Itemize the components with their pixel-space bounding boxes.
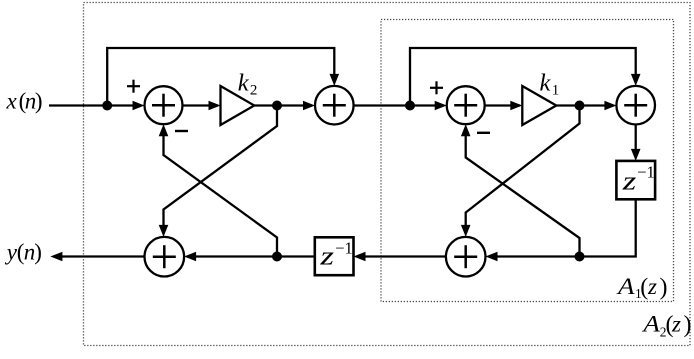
plus sign inside adder S1	[152, 94, 175, 117]
plus sign inside adder S1'	[454, 94, 477, 117]
node A junction dot	[102, 101, 112, 111]
node F junction dot	[575, 252, 585, 262]
plus sign inside adder S2	[323, 94, 346, 117]
wire x(n) input to summer S1	[49, 104, 141, 106]
arrowhead into S3' top	[461, 225, 471, 237]
plus sign inside adder S2'	[624, 94, 647, 117]
svg-text:k: k	[540, 69, 552, 96]
adder S2'	[616, 86, 655, 125]
arrowhead into S1' left	[435, 101, 447, 111]
arrowhead into triangle k2	[209, 101, 221, 111]
svg-text:): )	[34, 240, 42, 265]
label y(n)	[5, 240, 42, 265]
arrowhead into triangle k1	[510, 101, 522, 111]
label A2(z)	[641, 312, 691, 340]
node C junction dot	[272, 252, 282, 262]
arrowhead into S1 left	[133, 101, 145, 111]
arrowhead into S3 top	[159, 225, 169, 237]
adder S2	[315, 86, 354, 125]
label A1(z)	[616, 274, 668, 301]
wire delay z-1 left to node C to S3	[188, 255, 315, 257]
arrowhead into delay z-1 left right side	[354, 252, 366, 262]
arrowhead into S1 bottom (minus input)	[159, 124, 169, 136]
svg-text:z: z	[319, 242, 334, 271]
node E junction dot	[575, 101, 585, 111]
svg-text:z: z	[621, 166, 636, 195]
minus label at S1' feedback input	[477, 132, 490, 134]
minus label at S1 feedback input	[175, 130, 188, 132]
wire S3' to delay z-1 left	[358, 255, 447, 257]
svg-text:): )	[660, 275, 668, 301]
svg-text:z: z	[647, 274, 657, 299]
delay block z-1 left	[315, 237, 354, 275]
delay block z-1 right	[616, 161, 655, 199]
plus label at S1 input	[127, 80, 140, 93]
arrowhead into S2 top	[330, 74, 340, 86]
wire S1' to triangle k1	[485, 104, 520, 106]
node D junction dot	[405, 101, 415, 111]
wire triangle k1 output to node E to S2'	[556, 104, 613, 106]
plus sign inside adder S3	[153, 245, 176, 268]
wire S2 to node D to S1'	[354, 104, 443, 106]
wire S1 to triangle k2	[183, 104, 218, 106]
wire cross down right: node E to S3' top	[466, 106, 580, 230]
arrowhead into S1' bottom (minus input)	[461, 124, 471, 136]
wire top feedback right: node D up, across, down to S2'	[410, 48, 636, 106]
svg-text:): )	[684, 312, 692, 338]
wire cross up left: node C to S1 bottom	[164, 131, 278, 257]
adder S3	[145, 237, 185, 277]
label z-1 in left delay	[319, 238, 353, 270]
wire S3 to y(n) output	[54, 255, 145, 257]
label k2	[238, 69, 258, 98]
plus label at S1' input	[430, 81, 443, 94]
svg-text:x: x	[6, 89, 18, 114]
adder S1	[145, 86, 183, 124]
svg-text:2: 2	[250, 82, 258, 98]
label x(n)	[6, 89, 43, 114]
arrowhead into S3' right	[486, 252, 498, 262]
wire delay z-1 right down and left to S3'	[489, 199, 636, 256]
arrowhead into S2' top	[631, 74, 641, 86]
arrowhead into delay z-1 right top	[631, 149, 641, 161]
wire S2' down to delay z-1 right	[635, 125, 637, 157]
wire cross up right: node F to S1' bottom	[466, 131, 580, 257]
arrowhead into S3 right	[184, 252, 196, 262]
svg-text:−1: −1	[335, 238, 353, 257]
svg-text:A: A	[616, 274, 636, 299]
svg-text:1: 1	[552, 82, 560, 98]
svg-text:A: A	[641, 312, 661, 337]
node B junction dot	[272, 101, 282, 111]
label z-1 in right delay	[621, 163, 654, 196]
adder S1'	[447, 86, 485, 124]
triangle gain k1	[522, 86, 556, 125]
label k1	[540, 69, 560, 98]
triangle gain k2	[221, 86, 255, 125]
svg-text:z: z	[671, 312, 681, 337]
arrowhead into S2 left	[303, 101, 315, 111]
plus sign inside adder S3'	[454, 245, 477, 268]
wire triangle k2 output to node B to S2	[254, 104, 312, 106]
svg-text:k: k	[238, 69, 250, 96]
wire cross down left: node B to S3 top	[164, 106, 278, 230]
adder S3'	[446, 237, 486, 277]
svg-text:): )	[35, 89, 43, 114]
wire top feedback left: node A up, across, down to S2	[107, 48, 334, 106]
svg-text:−1: −1	[637, 163, 655, 182]
arrowhead into S2' left	[604, 101, 616, 111]
inner dotted box A1(z)	[381, 20, 674, 302]
arrowhead y(n) output left	[50, 252, 62, 262]
